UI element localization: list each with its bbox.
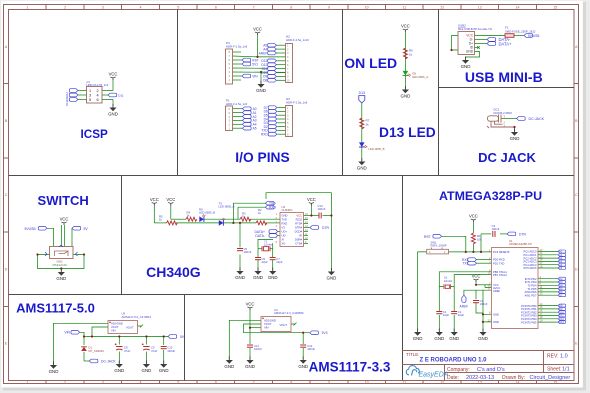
power VCC [246,302,255,310]
svg-text:C's and D's: C's and D's [477,367,505,373]
svg-text:SWITCH: SWITCH [38,193,89,208]
svg-text:1: 1 [26,5,28,9]
svg-text:1: 1 [89,89,91,93]
svg-text:16mhz: 16mhz [444,279,453,283]
svg-text:RXD: RXD [269,206,277,210]
svg-text:3: 3 [89,94,91,98]
svg-text:XI: XI [282,238,285,242]
capacitor C12 [300,345,306,347]
svg-text:RI: RI [299,234,302,238]
svg-text:AMS1117-5.0_C473812: AMS1117-5.0_C473812 [122,315,152,319]
svg-text:DC-JACK: DC-JACK [101,360,116,364]
junction [450,49,452,51]
svg-text:D8: D8 [263,79,267,83]
svg-text:1/1: 1/1 [562,367,570,373]
LED RX [199,214,205,222]
svg-text:CTS#: CTS# [295,242,302,246]
pin numbers DC1 [504,115,506,128]
svg-text:LED-0805_B: LED-0805_B [199,211,215,215]
svg-text:VOUT: VOUT [111,325,119,329]
svg-text:6: 6 [97,98,99,102]
node labels A5 A4 AREF D13..D8 [259,44,268,83]
title block [403,351,575,381]
junction [36,253,38,255]
capacitor C11 [247,345,253,347]
no-connect x [477,46,480,49]
IC U3 CH340G [280,213,304,247]
diode D1 [81,347,87,351]
svg-text:VOUT: VOUT [264,322,272,326]
regulator U4 AMS1117-3.3 [261,317,291,332]
header P5 ICSP connector [87,87,103,104]
svg-text:VOUT: VOUT [126,325,134,329]
node 5V-USB flag [524,34,533,38]
pin names U1 left [493,250,510,324]
svg-text:D11: D11 [118,93,124,97]
svg-text:5V1: 5V1 [252,62,258,66]
svg-text:C: C [575,193,578,197]
svg-text:3: 3 [102,5,104,9]
svg-text:3: 3 [102,381,104,385]
svg-text:15: 15 [553,5,557,9]
capacitor C13 [319,213,321,219]
svg-text:100nF: 100nF [254,347,262,351]
svg-text:PC6 RESET#: PC6 RESET# [493,250,510,254]
power VCC x2 [150,197,159,205]
svg-text:6: 6 [215,5,217,9]
LED D13 blue [359,142,367,148]
svg-text:12: 12 [440,381,444,385]
junction [513,126,515,128]
svg-text:DC-JACK: DC-JACK [529,117,545,121]
svg-text:Company:: Company: [447,367,470,373]
connector USB2 body [458,32,475,55]
pin numbers P5 [89,89,99,102]
svg-text:VCC: VCC [296,214,302,218]
node 5V flag [242,62,251,66]
svg-text:M7_C84184: M7_C84184 [89,349,105,353]
svg-text:PB7 XTAL2: PB7 XTAL2 [493,273,507,277]
svg-text:TITLE:: TITLE: [406,352,420,357]
svg-text:PD1 TXD: PD1 TXD [493,261,504,265]
svg-text:D11: D11 [65,96,69,101]
node flags A0..A5 [558,250,566,270]
svg-text:ATMEGA328P-PU: ATMEGA328P-PU [439,189,542,203]
svg-text:1k: 1k [409,53,413,57]
svg-text:TXD: TXD [282,218,287,222]
junctions [83,335,85,337]
svg-text:PC5 ADC5: PC5 ADC5 [524,266,537,270]
svg-text:1k: 1k [366,123,370,127]
svg-text:MSK12C02: MSK12C02 [53,263,68,267]
junctions [465,251,467,253]
pin names U5 [111,321,134,332]
ground [256,81,266,93]
wires [38,225,85,271]
svg-text:Sheet:: Sheet: [547,367,561,373]
wires [54,323,169,364]
svg-text:UD-: UD- [282,234,287,238]
svg-text:D7: D7 [559,293,563,297]
svg-text:DTR#: DTR# [295,226,303,230]
svg-text:AREF: AREF [460,304,469,308]
svg-text:2: 2 [64,381,66,385]
svg-text:VIN: VIN [111,329,116,333]
node DTR flag [310,226,319,230]
svg-text:HDR-F-2.5a_1x8: HDR-F-2.5a_1x8 [286,101,308,105]
resistor R5 [167,221,178,225]
pin names U3 right [295,214,303,246]
section titles [16,55,543,375]
svg-text:DATA+: DATA+ [499,42,513,47]
svg-text:11: 11 [403,381,407,385]
svg-text:8: 8 [290,5,292,9]
ground [56,269,66,281]
svg-text:9: 9 [328,5,330,9]
node flags D8..D13 [558,304,566,324]
connector DC1 barrel [487,115,515,129]
resistor R1 [471,233,475,244]
svg-text:D12: D12 [65,91,69,96]
svg-text:Date:: Date: [447,375,459,381]
svg-text:HDR-F-2.5a_1x6: HDR-F-2.5a_1x6 [226,102,248,106]
svg-text:CH340G: CH340G [146,264,201,280]
svg-text:DSR#: DSR# [295,238,303,242]
ground [461,57,471,69]
svg-text:7: 7 [253,5,255,9]
svg-text:RTS#: RTS# [295,222,302,226]
svg-text:5: 5 [177,381,179,385]
header H3 [286,106,293,137]
svg-text:PD0 RXD: PD0 RXD [493,258,505,262]
wires left [418,222,508,331]
header P1 [226,106,233,131]
svg-text:22pF: 22pF [443,313,450,317]
svg-text:13: 13 [478,5,482,9]
switch SW1 reset button [427,249,449,254]
svg-text:100nF: 100nF [318,207,326,211]
pin names U1 right [521,250,537,325]
svg-text:GND: GND [282,214,288,218]
svg-text:Z E ROBOARD UNO 1.0: Z E ROBOARD UNO 1.0 [419,358,487,364]
svg-text:D: D [575,267,578,271]
pin numbers U1 right [540,248,543,323]
capacitor C4 [473,301,479,303]
svg-text:10k: 10k [477,238,482,242]
svg-text:100nF: 100nF [307,347,315,351]
svg-text:4: 4 [140,381,142,385]
pin numbers U1 left [488,248,491,322]
svg-text:2: 2 [97,89,99,93]
ground [401,86,411,98]
resistor R4 [186,217,197,221]
capacitor C3 [493,231,495,237]
svg-text:C: C [5,193,8,197]
node D12 D11 D13 flags left [69,89,78,93]
svg-text:8: 8 [290,381,292,385]
node DATA- DATA+ flags [487,38,496,42]
svg-text:RXD: RXD [282,222,288,226]
node TXD RXD flags [265,201,274,205]
svg-text:A5: A5 [253,127,257,131]
svg-text:6: 6 [215,381,217,385]
svg-text:10: 10 [365,381,369,385]
svg-text:AMS1117-3.3_C426566: AMS1117-3.3_C426566 [274,311,304,315]
wires [452,36,525,59]
node 5V flag [168,335,177,339]
svg-text:HDR-M-2.54_2x3: HDR-M-2.54_2x3 [87,83,109,87]
power VCC mid [472,274,481,282]
grounds [224,357,234,369]
node flags A0..A5 [242,107,251,130]
svg-text:RST: RST [424,235,432,239]
svg-text:D13 LED: D13 LED [379,125,436,140]
svg-text:D13: D13 [359,91,365,95]
node labels A0..A5 [253,107,257,131]
svg-text:HDR-F-2.5a_1x8: HDR-F-2.5a_1x8 [226,45,248,49]
svg-text:V3: V3 [282,226,286,230]
svg-text:13: 13 [478,381,482,385]
node VIN flag [242,74,251,78]
svg-text:Circuit_Designer: Circuit_Designer [530,375,571,381]
grounds [413,329,423,341]
svg-text:PCINT5 PB5: PCINT5 PB5 [521,320,537,324]
svg-text:EasyEDA: EasyEDA [419,372,449,379]
svg-text:A5: A5 [559,266,563,270]
capacitor C7 [270,258,276,260]
svg-text:Drawn By:: Drawn By: [502,375,525,381]
svg-text:100nF: 100nF [244,250,252,254]
node AREF flag [462,295,466,303]
svg-text:2: 2 [64,5,66,9]
svg-text:DCD#: DCD# [295,230,303,234]
svg-text:AREF: AREF [259,51,268,55]
svg-text:7: 7 [253,381,255,385]
EasyEDA logo [406,366,448,379]
svg-text:12: 12 [440,5,444,9]
svg-text:5V USB: 5V USB [528,34,539,38]
node RST flag [242,58,251,62]
svg-text:ADJ/GND: ADJ/GND [111,321,123,325]
pin names U3 left [282,214,288,246]
capacitor C5 [237,249,243,251]
switch SW2 body [50,247,74,259]
svg-text:DATA-: DATA- [255,234,265,238]
regulator U5 AMS1117-5.0 [108,321,138,334]
power VCC right [307,197,316,205]
wire [361,103,363,161]
header P4 [226,49,233,84]
resistor R7 [360,118,364,129]
pin names USB2 [466,34,474,54]
pin names U4 [264,318,287,329]
grounds [235,268,245,280]
svg-text:22pF: 22pF [458,313,465,317]
LED TX [219,218,225,226]
LED ON green [403,71,411,77]
wires top headers [233,35,286,83]
svg-text:47uF: 47uF [151,349,158,353]
node flags D7..D2 TXD RXD [268,106,277,136]
ground [357,158,367,170]
svg-text:VOUT: VOUT [280,323,288,327]
node DC-JACK flag [517,117,526,121]
svg-text:5V: 5V [180,335,185,339]
power VCC [469,214,478,222]
svg-text:AIN1 PD7: AIN1 PD7 [525,293,537,297]
svg-text:14: 14 [516,381,520,385]
pin numbers P4 [229,50,231,82]
svg-text:LED-0805_B: LED-0805_B [219,205,235,209]
svg-text:GND: GND [466,50,474,54]
svg-text:4: 4 [97,94,99,98]
svg-text:GND: GND [493,320,499,324]
svg-text:HDR-F-2.5a_1x10: HDR-F-2.5a_1x10 [286,38,309,42]
grounds [49,362,59,374]
svg-text:ICSP: ICSP [81,128,108,141]
right side wires + pin numbers + flags [538,252,558,323]
svg-text:ATMEGA328P-PU: ATMEGA328P-PU [509,242,532,246]
svg-text:10: 10 [365,5,369,9]
pin numbers U3 [276,213,309,244]
svg-text:XO: XO [282,242,286,246]
svg-text:ADJ/GND: ADJ/GND [264,318,276,322]
resistor R6 [403,48,407,59]
svg-text:DC005-2.0MM: DC005-2.0MM [494,111,513,115]
junctions [232,222,234,224]
svg-text:VIN: VIN [264,326,269,330]
svg-text:LED-0805_G: LED-0805_G [412,75,428,79]
svg-text:100nF: 100nF [480,302,488,306]
node 5V flag [72,227,81,231]
ground [510,129,520,141]
svg-text:SMD-FUSE_250P_1812: SMD-FUSE_250P_1812 [505,29,536,33]
node DC-JACK flag [89,359,98,363]
svg-text:5: 5 [89,98,91,102]
header H2 [286,44,293,83]
svg-text:47uF: 47uF [124,349,131,353]
svg-text:VIN: VIN [64,331,70,335]
wire [404,32,406,91]
svg-text:R232: R232 [296,218,303,222]
capacitor C9 polarized [142,343,150,350]
node labels D7..D2 TXD RXD [261,106,268,137]
svg-text:3V3: 3V3 [322,331,328,335]
power VCC [109,72,118,80]
svg-text:UD+: UD+ [282,230,288,234]
resistor R2 [256,221,267,225]
ground [108,104,118,116]
svg-text:DTR: DTR [322,226,330,230]
svg-text:Mini-USB-B-5P-Female-TH: Mini-USB-B-5P-Female-TH [458,27,492,31]
svg-text:DTR: DTR [519,232,527,236]
svg-text:DC JACK: DC JACK [478,150,536,165]
svg-text:1: 1 [26,381,28,385]
svg-text:ON LED: ON LED [344,55,397,71]
svg-text:AREF: AREF [493,289,501,293]
svg-text:AMS1117-5.0: AMS1117-5.0 [16,301,95,316]
svg-text:15: 15 [553,381,557,385]
node 3V3 flag [310,331,319,335]
crystal X1 [444,284,451,289]
pin numbers H3 [287,106,289,137]
svg-text:D13: D13 [559,320,564,324]
junctions [249,327,251,329]
svg-text:2022-03-13: 2022-03-13 [466,375,494,381]
svg-text:D13: D13 [65,100,69,105]
svg-text:I/O PINS: I/O PINS [235,150,289,165]
svg-text:12mhz: 12mhz [264,243,273,247]
crystal Y1 [262,246,270,251]
wires [229,310,309,360]
capacitor C10 [161,347,167,349]
svg-text:GND: GND [493,312,499,316]
node D11 flag right [108,93,117,97]
svg-text:100nF: 100nF [167,349,175,353]
svg-text:VIN: VIN [252,74,258,78]
IC U1 ATMEGA328P-PU [492,248,539,329]
wires [504,119,517,132]
svg-text:22pF: 22pF [262,260,269,264]
pin numbers H2 [287,43,290,82]
svg-text:RXD: RXD [261,133,268,137]
svg-text:LED-0805_B: LED-0805_B [369,147,385,151]
svg-text:22pF: 22pF [276,260,283,264]
capacitor C2 [451,312,457,314]
svg-text:1.0: 1.0 [560,354,568,360]
svg-text:5VUSB: 5VUSB [25,227,37,231]
svg-text:REV:: REV: [547,354,558,360]
pin numbers P1 [229,107,231,131]
power VCC [401,24,410,32]
svg-text:AMS1117-3.3: AMS1117-3.3 [309,360,391,375]
capacitor C6 [255,258,261,260]
svg-text:100nF: 100nF [492,227,500,231]
capacitor C8 polarized [115,343,123,350]
svg-text:14: 14 [516,5,520,9]
wire pin stubs left [78,80,113,107]
svg-text:5: 5 [177,5,179,9]
svg-text:RSFL-1000P: RSFL-1000P [431,244,447,248]
svg-text:CH340G: CH340G [282,208,293,212]
power VCC [60,217,69,225]
bottom headers wires [233,108,286,135]
capacitor C1 [436,312,442,314]
power VCC [253,27,262,35]
svg-text:11: 11 [403,5,407,9]
svg-text:D: D [5,267,8,271]
node flags D2..D7 [558,277,566,297]
fuse F1 [505,34,514,38]
wires [154,193,331,271]
resistor R3 [240,217,251,221]
svg-text:USB MINI-B: USB MINI-B [465,69,543,85]
svg-text:9: 9 [328,381,330,385]
node DTR flag [507,232,516,236]
junction [256,56,258,58]
svg-text:5V: 5V [84,227,89,231]
svg-text:4: 4 [140,5,142,9]
